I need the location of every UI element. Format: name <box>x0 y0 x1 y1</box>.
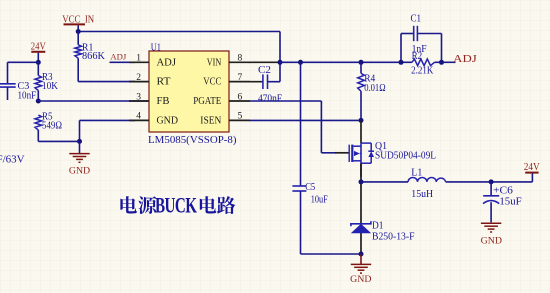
svg-text:SUD50P04-09L: SUD50P04-09L <box>375 151 436 162</box>
svg-text:ADJ: ADJ <box>157 56 177 68</box>
svg-text:0.01Ω: 0.01Ω <box>364 83 385 94</box>
wire PGATE down <box>320 101 322 153</box>
resistor R2 <box>401 51 442 77</box>
node R2 right <box>439 60 444 65</box>
svg-text:4: 4 <box>136 112 141 122</box>
wire RT to R1 <box>78 81 135 83</box>
wire PGATE <box>249 100 321 102</box>
capacitor C1 <box>401 13 442 62</box>
power port 24V right <box>524 162 541 182</box>
wire L1 to 24V <box>446 181 533 183</box>
svg-text:1: 1 <box>136 54 141 64</box>
svg-text:3: 3 <box>136 92 141 102</box>
node ISEN junction <box>359 118 364 123</box>
node R4 junction top <box>359 60 364 65</box>
svg-text:ADJ: ADJ <box>110 53 127 62</box>
svg-text:L1: L1 <box>411 168 422 179</box>
pin 4 GND <box>129 112 178 127</box>
node L1 junction <box>359 179 364 184</box>
wire GND pin down <box>79 120 81 141</box>
node VIN junction <box>278 60 283 65</box>
svg-text:F/63V: F/63V <box>0 154 25 166</box>
wire ADJ pin1 <box>110 61 136 63</box>
svg-text:R2: R2 <box>412 51 423 62</box>
svg-text:LM5085(VSSOP-8): LM5085(VSSOP-8) <box>148 135 237 146</box>
power port 24V left <box>31 42 47 63</box>
node 24V junction <box>36 60 41 65</box>
svg-text:C5: C5 <box>305 182 315 193</box>
wire VIN to rail <box>249 61 278 63</box>
wire VCC_IN rail top <box>78 31 280 33</box>
wire rail VIN to ADJ <box>280 61 401 63</box>
resistor R3 <box>35 62 59 101</box>
svg-text:15uH: 15uH <box>411 189 433 200</box>
svg-text:10nF: 10nF <box>18 91 37 102</box>
svg-text:866K: 866K <box>82 51 106 62</box>
svg-text:24V: 24V <box>524 162 541 173</box>
capacitor C6 <box>483 182 522 222</box>
svg-text:PGATE: PGATE <box>193 95 221 107</box>
ground GND left <box>69 141 90 176</box>
svg-text:2.21K: 2.21K <box>411 66 434 77</box>
pin 7 VCC <box>203 73 250 88</box>
svg-text:RT: RT <box>157 76 171 88</box>
node C6 junction <box>489 179 494 184</box>
svg-text:FB: FB <box>157 95 170 107</box>
svg-text:2: 2 <box>136 73 141 83</box>
ground GND C6 <box>481 223 502 246</box>
svg-text:+C6: +C6 <box>493 186 513 197</box>
svg-text:GND: GND <box>157 115 179 127</box>
svg-text:549Ω: 549Ω <box>42 121 62 132</box>
svg-text:B250-13-F: B250-13-F <box>372 231 415 242</box>
capacitor C5 <box>292 62 328 254</box>
ground GND bottom <box>350 254 371 285</box>
pin 5 ISEN <box>200 112 250 127</box>
svg-text:10K: 10K <box>42 81 59 92</box>
svg-text:ADJ: ADJ <box>453 54 477 65</box>
node R5 GND junction <box>77 139 82 144</box>
svg-text:6: 6 <box>238 92 243 102</box>
wire C5 bottom to GND <box>301 253 362 255</box>
op-amp U1 LM5085 body <box>148 43 237 146</box>
svg-text:BUCK: BUCK <box>155 194 197 219</box>
svg-text:VCC: VCC <box>203 76 221 88</box>
wire ISEN <box>249 119 361 121</box>
svg-text:U1: U1 <box>151 43 161 54</box>
node C5 junction top <box>298 60 303 65</box>
resistor R1 <box>75 32 106 82</box>
title 电源BUCK电路 <box>120 194 235 219</box>
wire GND pin <box>80 119 136 121</box>
pin 3 FB <box>129 92 170 107</box>
resistor R4 <box>358 62 386 120</box>
power port VCC_IN <box>62 14 94 31</box>
capacitor C2 <box>229 65 282 105</box>
node FB junction <box>36 99 41 104</box>
wire rail down to C2 <box>279 32 281 82</box>
pin 6 PGATE <box>193 92 250 107</box>
wire ADJ right <box>442 61 456 63</box>
wire R5 bottom <box>38 140 79 142</box>
svg-text:GND: GND <box>481 236 502 246</box>
node GND junction bottom <box>359 252 364 257</box>
capacitor C3 <box>0 62 37 101</box>
svg-text:ISEN: ISEN <box>200 115 221 127</box>
node VCC_IN junction <box>76 29 81 34</box>
svg-text:GND: GND <box>69 167 90 177</box>
wire FB <box>38 100 149 102</box>
pin 8 VIN <box>207 54 250 69</box>
svg-text:VIN: VIN <box>207 56 222 68</box>
svg-text:15uF: 15uF <box>499 197 522 208</box>
svg-text:C2: C2 <box>258 65 271 76</box>
svg-text:D1: D1 <box>372 220 384 231</box>
pin 2 RT <box>129 73 171 88</box>
inductor L1 <box>408 168 446 201</box>
resistor R5 <box>35 112 62 142</box>
svg-text:470nF: 470nF <box>258 94 282 105</box>
svg-text:10uF: 10uF <box>311 194 328 205</box>
wire gate <box>321 152 336 154</box>
diode D1 <box>351 220 415 242</box>
transistor Q1 <box>335 120 436 177</box>
wire Q1 to D1 <box>360 163 362 254</box>
wire L1 left <box>361 181 408 183</box>
pin 1 ADJ <box>129 54 177 69</box>
svg-text:8: 8 <box>238 54 243 64</box>
svg-text:C1: C1 <box>411 13 422 24</box>
node R2 left <box>399 60 404 65</box>
svg-text:GND: GND <box>350 275 371 285</box>
wire 24V to C3 <box>8 61 39 63</box>
svg-text:5: 5 <box>238 112 243 122</box>
